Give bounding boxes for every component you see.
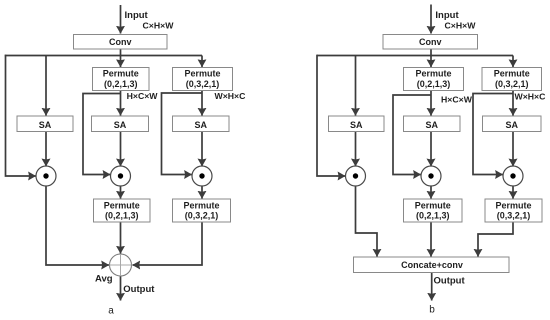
svg-text:W×H×C: W×H×C	[515, 92, 547, 102]
svg-text:Permute: Permute	[184, 69, 220, 79]
svg-text:SA: SA	[505, 120, 518, 130]
svg-text:Conv: Conv	[419, 37, 442, 47]
svg-text:W×H×C: W×H×C	[215, 91, 247, 101]
svg-text:(0,3,2,1): (0,3,2,1)	[185, 211, 219, 221]
svg-text:(0,3,2,1): (0,3,2,1)	[497, 211, 531, 221]
svg-text:Permute: Permute	[415, 201, 451, 211]
svg-text:SA: SA	[114, 120, 127, 130]
svg-text:(0,2,1,3): (0,2,1,3)	[105, 211, 139, 221]
svg-text:Permute: Permute	[103, 69, 139, 79]
svg-text:SA: SA	[194, 120, 207, 130]
svg-text:Permute: Permute	[104, 201, 140, 211]
svg-text:(0,3,2,1): (0,3,2,1)	[495, 79, 529, 89]
svg-text:C×H×W: C×H×W	[445, 21, 477, 31]
svg-text:(0,2,1,3): (0,2,1,3)	[104, 79, 138, 89]
svg-text:SA: SA	[350, 120, 363, 130]
svg-text:SA: SA	[39, 120, 52, 130]
svg-text:H×C×W: H×C×W	[441, 95, 473, 105]
svg-text:Output: Output	[434, 276, 466, 287]
svg-text:(0,2,1,3): (0,2,1,3)	[416, 211, 450, 221]
svg-text:H×C×W: H×C×W	[127, 91, 159, 101]
svg-text:(0,2,1,3): (0,2,1,3)	[417, 79, 451, 89]
svg-text:Permute: Permute	[415, 69, 451, 79]
svg-text:Avg: Avg	[95, 274, 113, 285]
svg-text:Concate+conv: Concate+conv	[401, 260, 463, 270]
svg-text:Conv: Conv	[109, 37, 132, 47]
svg-text:SA: SA	[425, 120, 438, 130]
svg-text:a: a	[108, 306, 114, 317]
svg-text:Permute: Permute	[183, 201, 219, 211]
svg-text:C×H×W: C×H×W	[143, 21, 175, 31]
svg-text:b: b	[429, 305, 435, 316]
svg-text:Permute: Permute	[495, 201, 531, 211]
svg-text:Input: Input	[125, 10, 149, 21]
svg-text:Input: Input	[435, 10, 459, 21]
svg-text:Permute: Permute	[494, 69, 530, 79]
svg-text:Output: Output	[123, 284, 155, 295]
svg-text:(0,3,2,1): (0,3,2,1)	[186, 79, 220, 89]
